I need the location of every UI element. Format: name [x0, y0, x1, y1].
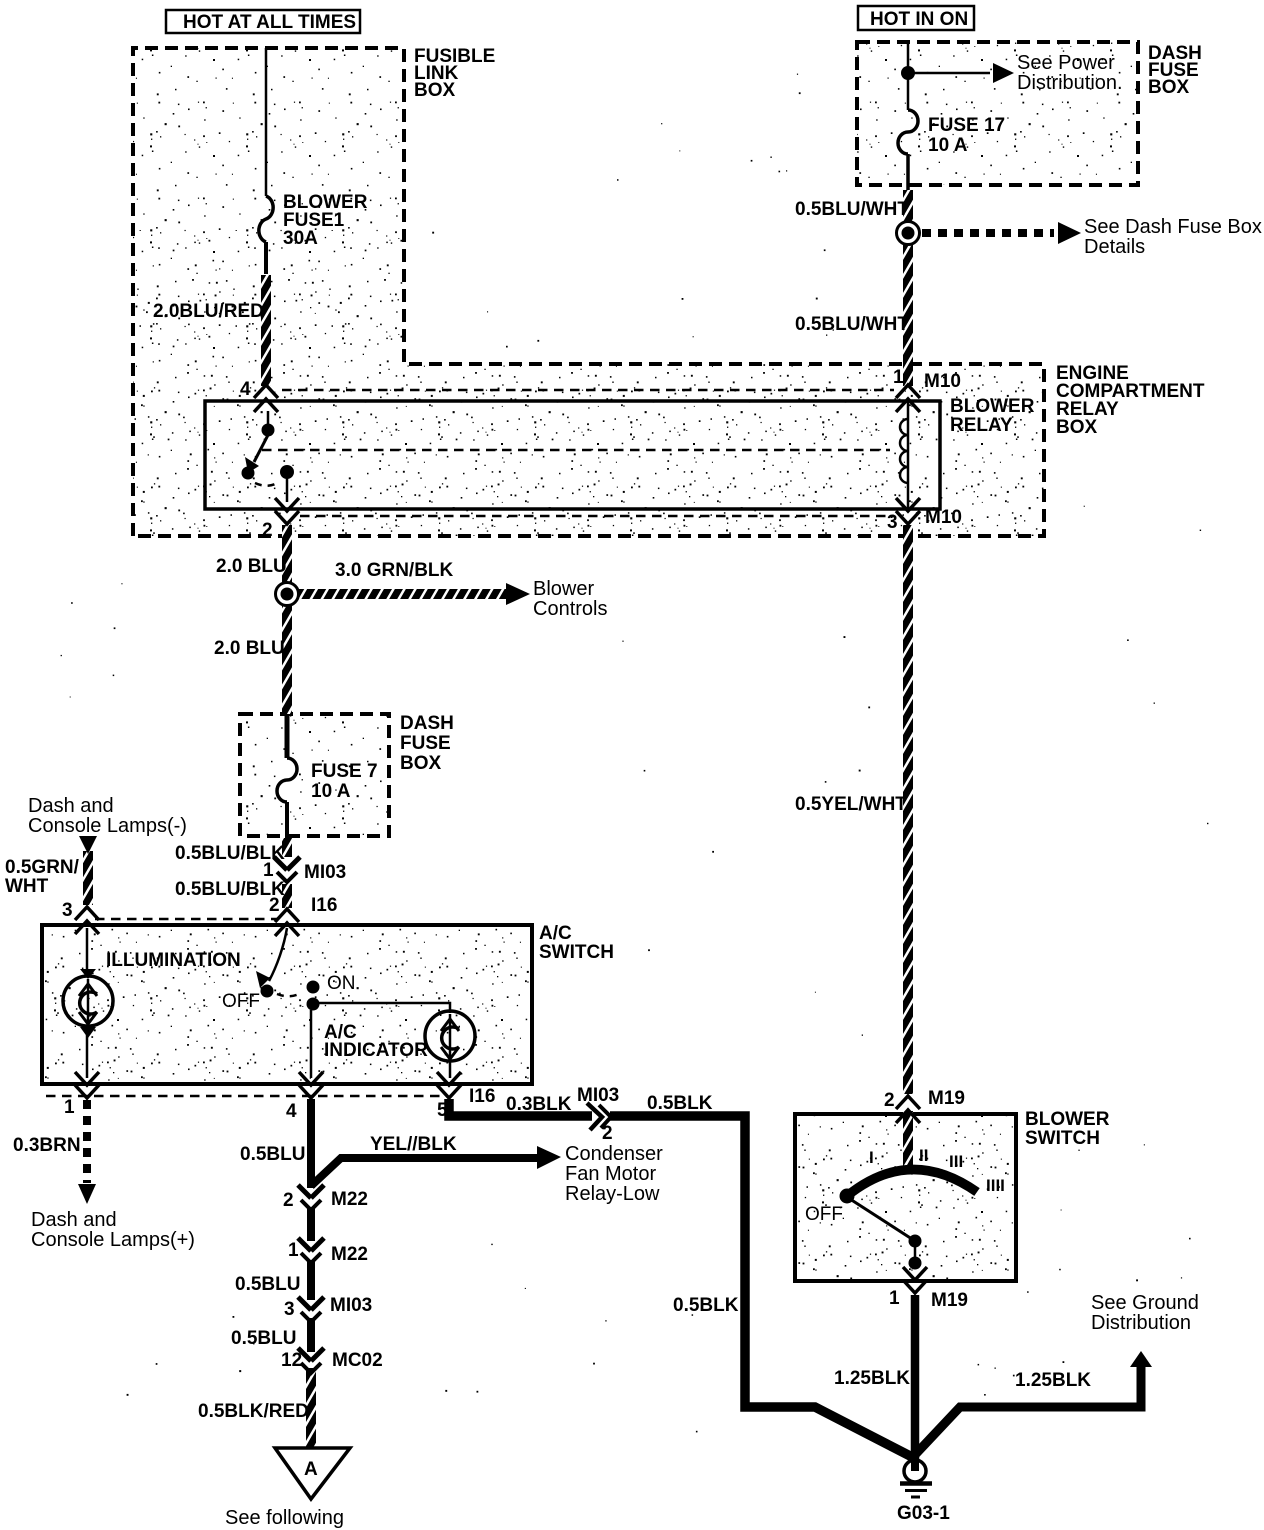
svg-text:M10: M10 — [924, 371, 961, 392]
svg-text:Condenser: Condenser — [565, 1143, 663, 1165]
svg-text:BOX: BOX — [1148, 77, 1190, 98]
svg-text:1: 1 — [893, 367, 904, 388]
svg-text:ILLUMINATION: ILLUMINATION — [106, 950, 241, 971]
svg-text:FUSE 17: FUSE 17 — [928, 115, 1005, 136]
svg-text:1: 1 — [64, 1097, 75, 1118]
svg-text:III: III — [949, 1152, 963, 1171]
svg-text:10 A: 10 A — [311, 781, 351, 802]
svg-text:See following: See following — [225, 1507, 344, 1529]
svg-text:0.5BLU: 0.5BLU — [235, 1274, 300, 1295]
svg-text:2: 2 — [262, 520, 273, 541]
svg-text:0.5BLU: 0.5BLU — [231, 1328, 296, 1349]
svg-text:DASH: DASH — [400, 713, 454, 734]
svg-text:A: A — [304, 1459, 318, 1480]
svg-text:OFF: OFF — [805, 1204, 843, 1225]
svg-text:3: 3 — [62, 900, 73, 921]
svg-text:30A: 30A — [283, 228, 318, 249]
svg-text:BOX: BOX — [1056, 417, 1098, 438]
svg-text:Distribution: Distribution — [1091, 1312, 1191, 1334]
svg-text:RELAY: RELAY — [950, 415, 1013, 436]
svg-text:SWITCH: SWITCH — [1025, 1128, 1100, 1149]
svg-text:Details: Details — [1084, 236, 1145, 258]
svg-text:0.5BLK: 0.5BLK — [673, 1295, 739, 1316]
svg-text:1: 1 — [889, 1288, 900, 1309]
svg-text:ON: ON — [327, 973, 356, 994]
svg-text:IIII: IIII — [986, 1176, 1005, 1195]
svg-text:Fan Motor: Fan Motor — [565, 1163, 656, 1185]
svg-text:Dash and: Dash and — [28, 795, 114, 817]
svg-text:0.5BLU/WHT: 0.5BLU/WHT — [795, 199, 909, 220]
svg-text:0.3BLK: 0.3BLK — [506, 1094, 572, 1115]
svg-text:2: 2 — [269, 895, 280, 916]
svg-text:0.5GRN/: 0.5GRN/ — [5, 857, 80, 878]
svg-text:3.0 GRN/BLK: 3.0 GRN/BLK — [335, 560, 454, 581]
svg-text:4: 4 — [286, 1101, 297, 1122]
svg-text:2: 2 — [884, 1090, 895, 1111]
svg-text:0.3BRN: 0.3BRN — [13, 1135, 81, 1156]
svg-text:0.5BLU: 0.5BLU — [240, 1144, 305, 1165]
svg-text:0.5BLU/WHT: 0.5BLU/WHT — [795, 314, 909, 335]
svg-text:BOX: BOX — [400, 753, 442, 774]
svg-text:MI03: MI03 — [304, 862, 346, 883]
svg-text:G03-1: G03-1 — [897, 1503, 950, 1524]
svg-text:HOT IN ON: HOT IN ON — [870, 9, 968, 30]
svg-text:See Dash Fuse Box: See Dash Fuse Box — [1084, 216, 1262, 238]
svg-text:2: 2 — [602, 1123, 613, 1144]
svg-text:I16: I16 — [469, 1086, 495, 1107]
svg-text:1: 1 — [288, 1240, 299, 1261]
svg-text:SWITCH: SWITCH — [539, 942, 614, 963]
svg-text:0.5YEL/WHT: 0.5YEL/WHT — [795, 794, 907, 815]
svg-text:2.0BLU/RED: 2.0BLU/RED — [153, 301, 264, 322]
svg-text:M10: M10 — [925, 507, 962, 528]
svg-text:HOT AT ALL TIMES: HOT AT ALL TIMES — [183, 12, 356, 33]
svg-text:II: II — [919, 1146, 928, 1165]
svg-text:WHT: WHT — [5, 876, 49, 897]
svg-text:Console Lamps(-): Console Lamps(-) — [28, 815, 187, 837]
svg-text:0.5BLK: 0.5BLK — [647, 1093, 713, 1114]
svg-text:See Ground: See Ground — [1091, 1292, 1199, 1314]
svg-text:BLOWER: BLOWER — [950, 396, 1035, 417]
svg-text:A/C: A/C — [539, 923, 572, 944]
svg-text:4: 4 — [240, 379, 251, 400]
svg-text:MI03: MI03 — [330, 1295, 372, 1316]
svg-text:1: 1 — [263, 860, 274, 881]
svg-text:YEL//BLK: YEL//BLK — [370, 1134, 457, 1155]
svg-text:I: I — [869, 1148, 874, 1167]
svg-text:I16: I16 — [311, 895, 337, 916]
svg-text:2: 2 — [283, 1190, 294, 1211]
svg-text:2.0 BLU: 2.0 BLU — [214, 638, 285, 659]
svg-text:M19: M19 — [931, 1290, 968, 1311]
svg-text:FUSE 7: FUSE 7 — [311, 761, 378, 782]
svg-text:3: 3 — [284, 1299, 295, 1320]
svg-text:0.5BLK/RED: 0.5BLK/RED — [198, 1401, 309, 1422]
svg-text:3: 3 — [887, 512, 898, 533]
svg-text:M19: M19 — [928, 1088, 965, 1109]
svg-text:M22: M22 — [331, 1189, 368, 1210]
svg-text:Distribution.: Distribution. — [1017, 72, 1123, 94]
svg-text:FUSE: FUSE — [400, 733, 451, 754]
svg-text:Dash and: Dash and — [31, 1209, 117, 1231]
svg-text:BLOWER: BLOWER — [1025, 1109, 1110, 1130]
svg-text:Blower: Blower — [533, 578, 594, 600]
svg-text:BOX: BOX — [414, 80, 456, 101]
svg-text:Controls: Controls — [533, 598, 607, 620]
svg-text:2.0 BLU: 2.0 BLU — [216, 556, 287, 577]
svg-text:5: 5 — [437, 1100, 448, 1121]
svg-text:Relay-Low: Relay-Low — [565, 1183, 660, 1205]
svg-text:M22: M22 — [331, 1244, 368, 1265]
svg-text:MI03: MI03 — [577, 1085, 619, 1106]
svg-text:INDICATOR: INDICATOR — [324, 1040, 428, 1061]
svg-text:12: 12 — [281, 1350, 302, 1371]
svg-text:MC02: MC02 — [332, 1350, 383, 1371]
svg-text:1.25BLK: 1.25BLK — [834, 1368, 910, 1389]
svg-text:See Power: See Power — [1017, 52, 1115, 74]
svg-text:OFF: OFF — [222, 991, 260, 1012]
svg-text:1.25BLK: 1.25BLK — [1015, 1370, 1091, 1391]
svg-text:Console Lamps(+): Console Lamps(+) — [31, 1229, 195, 1251]
svg-text:10 A: 10 A — [928, 135, 968, 156]
